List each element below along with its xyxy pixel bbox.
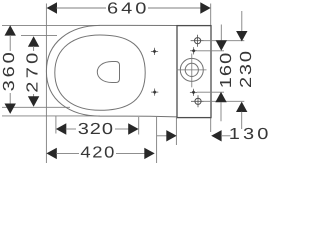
svg-text:270: 270 <box>25 53 42 93</box>
dimension 420 <box>46 144 154 161</box>
dimension 320 <box>56 121 139 138</box>
svg-text:420: 420 <box>80 144 114 161</box>
extension line tank rear x=210.7 top <box>210 4 212 26</box>
extension line x=138.7 <box>138 117 140 135</box>
svg-text:640: 640 <box>107 1 146 18</box>
svg-text:130: 130 <box>229 126 269 143</box>
extension line top y=25.4 <box>2 24 100 26</box>
seat hole marker bottom <box>151 89 158 96</box>
extension line inner oval bottom y=107.3 <box>2 106 70 108</box>
svg-text:160: 160 <box>218 53 235 89</box>
extension line front of pan x=46.4 <box>45 4 47 164</box>
extension line tank front x=176.4 <box>175 118 177 145</box>
ext line from bottom crosshair <box>204 100 244 102</box>
drain D-shape <box>97 62 119 83</box>
bottom tank diamond <box>190 89 197 96</box>
bottom crosshair hole <box>191 95 204 107</box>
seat inner oval <box>55 35 145 110</box>
dimension 270 <box>25 36 42 106</box>
seat hole marker top <box>151 48 158 55</box>
extension line inner oval top y=35.4 <box>21 34 57 36</box>
svg-text:360: 360 <box>1 52 18 91</box>
dimension 230 <box>236 11 255 129</box>
dimension 130 <box>157 126 269 143</box>
ext line from top crosshair <box>204 40 245 42</box>
top tank diamond <box>190 47 197 54</box>
top crosshair hole <box>191 35 204 47</box>
bowl outer outline <box>46 25 177 117</box>
ext line from bottom diamond <box>197 91 224 93</box>
dimension 640 <box>47 1 211 18</box>
extension line bottom y=115.9 <box>2 115 100 117</box>
extension line tank rear x=210.7 bottom <box>210 118 212 132</box>
extension line x=156.6 <box>156 117 158 163</box>
svg-text:320: 320 <box>78 121 113 138</box>
cistern tank rectangle <box>177 26 211 118</box>
extension line seat front x=55.9 <box>55 116 57 134</box>
dimension 160 <box>215 25 235 122</box>
big flush circle <box>177 54 207 88</box>
svg-text:230: 230 <box>238 51 255 88</box>
dimension 360 <box>1 25 18 114</box>
ext line from top diamond <box>197 50 224 52</box>
